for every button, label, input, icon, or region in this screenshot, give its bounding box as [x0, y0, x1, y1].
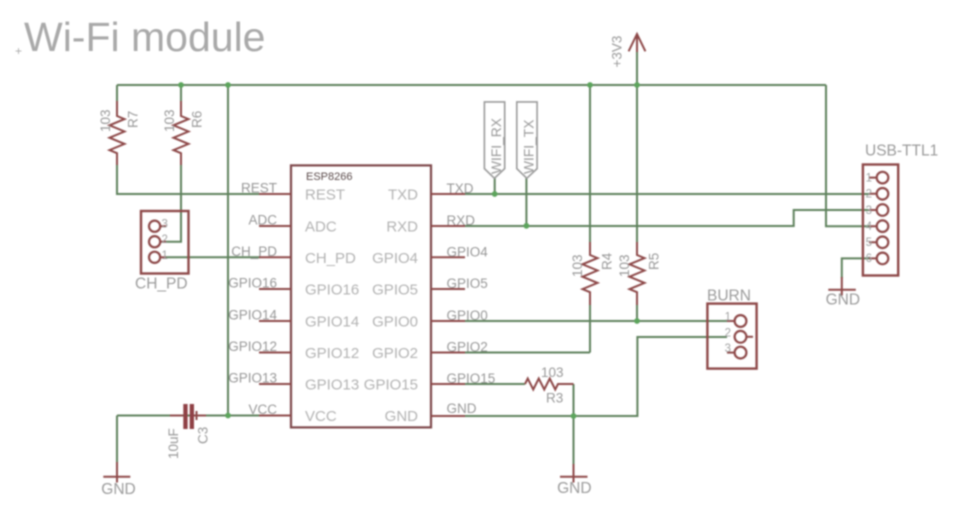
svg-text:ADC: ADC: [305, 219, 337, 236]
svg-text:103: 103: [570, 254, 585, 277]
svg-text:103: 103: [617, 254, 632, 277]
pin GPIO5 stub: [431, 288, 465, 290]
wire +3V3 arrow stem: [636, 52, 638, 85]
svg-text:WIFI_TX: WIFI_TX: [521, 120, 536, 174]
svg-text:CH_PD: CH_PD: [305, 250, 356, 267]
svg-text:REST: REST: [305, 187, 345, 204]
flag WIFI_TX: [517, 102, 537, 178]
svg-text:CH_PD: CH_PD: [231, 244, 277, 259]
connector USB-TTL1: [863, 143, 938, 276]
svg-text:6: 6: [866, 253, 872, 265]
pin GPIO12 stub: [259, 352, 291, 354]
svg-text:GND: GND: [826, 292, 860, 309]
pin REST stub: [259, 193, 291, 195]
svg-text:103: 103: [162, 109, 177, 132]
wire +3V3 drop to VCC: [227, 85, 229, 416]
svg-text:GPIO13: GPIO13: [305, 377, 359, 394]
svg-text:GPIO2: GPIO2: [447, 340, 488, 355]
svg-text:GPIO13: GPIO13: [228, 371, 277, 386]
pin GPIO14 stub: [259, 320, 291, 322]
svg-text:2: 2: [162, 234, 168, 246]
svg-text:5: 5: [866, 237, 872, 249]
wire RXD net: [465, 210, 870, 226]
wire GPIO0 net: [465, 320, 727, 322]
wire GND symbol branch: [573, 416, 575, 464]
svg-text:GND: GND: [447, 401, 477, 416]
wire GPIO15 net: [465, 383, 525, 385]
wire R3 right to GND: [573, 384, 575, 416]
wire R5 upper: [636, 85, 638, 242]
svg-text:GPIO0: GPIO0: [372, 314, 418, 331]
connector CH_PD: [135, 211, 189, 293]
wire rail right drop to USB pin4: [826, 85, 870, 226]
svg-text:103: 103: [541, 365, 564, 380]
svg-text:RXD: RXD: [386, 219, 418, 236]
pin GND stub: [431, 415, 465, 417]
wire VCC net: [117, 415, 260, 417]
svg-text:1: 1: [162, 250, 168, 262]
svg-text:10uF: 10uF: [166, 428, 181, 459]
svg-text:GPIO0: GPIO0: [447, 308, 488, 323]
svg-text:GPIO12: GPIO12: [305, 345, 359, 362]
svg-text:R3: R3: [546, 391, 563, 406]
wire USB pin6 to GND: [842, 258, 870, 278]
svg-text:GPIO2: GPIO2: [372, 345, 418, 362]
svg-text:3: 3: [725, 343, 731, 355]
svg-text:3: 3: [162, 219, 168, 231]
svg-text:GPIO15: GPIO15: [364, 377, 418, 394]
resistor R5: [617, 242, 662, 305]
node junction rail R6: [178, 82, 184, 88]
wire R6 bottom to CH_PD pin2: [165, 165, 181, 242]
wire WIFI_TX tap: [525, 178, 527, 226]
svg-text:GPIO4: GPIO4: [447, 244, 489, 259]
svg-text:4: 4: [866, 221, 873, 233]
resistor R6: [162, 101, 205, 165]
svg-text:USB-TTL1: USB-TTL1: [865, 143, 938, 160]
wire GPIO2 net: [465, 352, 590, 354]
wire REST net: [117, 165, 260, 194]
svg-text:R5: R5: [647, 253, 662, 270]
svg-text:+: +: [15, 44, 22, 58]
svg-text:Wi-Fi module: Wi-Fi module: [24, 14, 265, 60]
node junction WIFI_RX on TXD: [492, 191, 498, 197]
pin ADC stub: [259, 225, 291, 227]
svg-text:GPIO12: GPIO12: [228, 339, 277, 354]
ground GND under C3: [101, 462, 135, 498]
svg-text:C3: C3: [196, 427, 211, 444]
wire R4 lower to GPIO2: [589, 305, 591, 353]
ground GND main: [557, 464, 591, 497]
node junction WIFI_TX on RXD: [524, 223, 530, 229]
wire R4 upper: [589, 85, 591, 242]
svg-text:GPIO15: GPIO15: [447, 371, 496, 386]
svg-text:1: 1: [866, 172, 872, 184]
wire TXD net: [465, 193, 870, 195]
flag WIFI_RX: [484, 102, 504, 178]
svg-text:BURN: BURN: [707, 288, 751, 305]
svg-text:GND: GND: [385, 408, 419, 425]
pin VCC stub: [259, 415, 291, 417]
node junction GND net: [571, 413, 577, 419]
svg-text:GPIO16: GPIO16: [228, 276, 277, 291]
pin CH_PD stub: [259, 256, 291, 258]
connector BURN: [707, 288, 757, 369]
svg-text:3: 3: [866, 205, 872, 217]
wire C3 ground branch: [116, 416, 118, 463]
ground GND under USB: [826, 277, 860, 309]
svg-text:GND: GND: [557, 480, 591, 497]
svg-text:GPIO14: GPIO14: [305, 314, 359, 331]
svg-text:2: 2: [866, 189, 872, 201]
svg-text:GPIO5: GPIO5: [447, 276, 488, 291]
svg-text:TXD: TXD: [447, 181, 474, 196]
wire R5 lower to GPIO0: [636, 305, 638, 321]
pin TXD stub: [431, 193, 465, 195]
svg-text:1: 1: [725, 312, 731, 324]
svg-text:+3V3: +3V3: [610, 36, 625, 68]
svg-text:R6: R6: [190, 111, 205, 128]
resistor R3: [525, 365, 574, 406]
node junction R5 GPIO0: [634, 318, 640, 324]
pin GPIO16 stub: [259, 288, 291, 290]
op-amp ESP8266 IC box U1: [291, 165, 431, 427]
svg-text:R7: R7: [126, 111, 141, 128]
svg-text:TXD: TXD: [388, 187, 418, 204]
wire WIFI_RX tap: [494, 178, 496, 194]
pin GPIO4 stub: [431, 256, 465, 258]
svg-text:VCC: VCC: [248, 402, 277, 417]
svg-text:REST: REST: [241, 181, 277, 196]
wire +3V3 top rail: [117, 84, 826, 86]
pin GPIO0 stub: [431, 320, 465, 322]
svg-text:R4: R4: [600, 252, 615, 270]
pin GPIO2 stub: [431, 352, 465, 354]
svg-text:RXD: RXD: [447, 213, 476, 228]
svg-text:GPIO14: GPIO14: [228, 308, 277, 323]
power +3V3 symbol: [610, 34, 646, 68]
svg-text:103: 103: [98, 109, 113, 132]
node junction VCC drop: [225, 413, 231, 419]
wire GND net: [465, 337, 727, 416]
pin GPIO15 stub: [431, 383, 465, 385]
wire R6 top lead: [180, 85, 182, 101]
svg-text:GND: GND: [101, 481, 135, 498]
resistor R4: [570, 242, 615, 305]
node junction rail R5: [634, 82, 640, 88]
wire CH_PD net: [165, 256, 260, 258]
svg-text:VCC: VCC: [305, 408, 337, 425]
svg-text:CH_PD: CH_PD: [135, 276, 188, 293]
svg-text:ESP8266: ESP8266: [306, 171, 352, 183]
svg-text:WIFI_RX: WIFI_RX: [489, 118, 504, 174]
resistor R7: [98, 101, 141, 165]
svg-text:GPIO16: GPIO16: [305, 282, 359, 299]
svg-text:ADC: ADC: [248, 213, 277, 228]
svg-text:2: 2: [725, 327, 731, 339]
pin GPIO13 stub: [259, 383, 291, 385]
svg-text:GPIO5: GPIO5: [372, 282, 418, 299]
node junction rail R4: [587, 82, 593, 88]
capacitor C3: [166, 404, 211, 459]
wire R7 top lead: [116, 85, 118, 101]
node junction rail drop: [225, 82, 231, 88]
svg-text:GPIO4: GPIO4: [372, 250, 418, 267]
pin RXD stub: [431, 225, 465, 227]
